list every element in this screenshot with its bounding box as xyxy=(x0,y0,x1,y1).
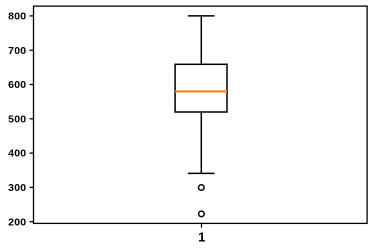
y-axis tick 300 xyxy=(30,186,34,188)
svg-text:300: 300 xyxy=(8,182,26,194)
y-axis tick 700 xyxy=(30,49,34,51)
y-axis tick 800 xyxy=(30,15,34,17)
svg-text:500: 500 xyxy=(8,113,26,125)
lower whisker cap at 340 xyxy=(188,172,215,174)
svg-text:400: 400 xyxy=(8,148,26,160)
svg-text:800: 800 xyxy=(8,11,26,23)
x-axis tick 1 xyxy=(201,223,203,227)
box (Q1 520 to Q3 660) xyxy=(175,64,227,112)
upper whisker line xyxy=(200,16,202,64)
svg-text:200: 200 xyxy=(8,216,26,228)
y-axis tick 400 xyxy=(30,152,34,154)
svg-text:1: 1 xyxy=(198,229,205,244)
upper whisker cap at 800 xyxy=(188,15,215,17)
svg-text:600: 600 xyxy=(8,79,26,91)
outlier flier at 300 xyxy=(199,185,205,191)
outlier flier at 225 xyxy=(199,211,205,217)
y-axis tick 500 xyxy=(30,118,34,120)
y-axis tick 200 xyxy=(30,221,34,223)
svg-text:700: 700 xyxy=(8,45,26,57)
lower whisker line xyxy=(200,112,202,173)
y-axis tick 600 xyxy=(30,84,34,86)
axes frame xyxy=(34,6,368,223)
median line at 580 xyxy=(175,90,227,92)
